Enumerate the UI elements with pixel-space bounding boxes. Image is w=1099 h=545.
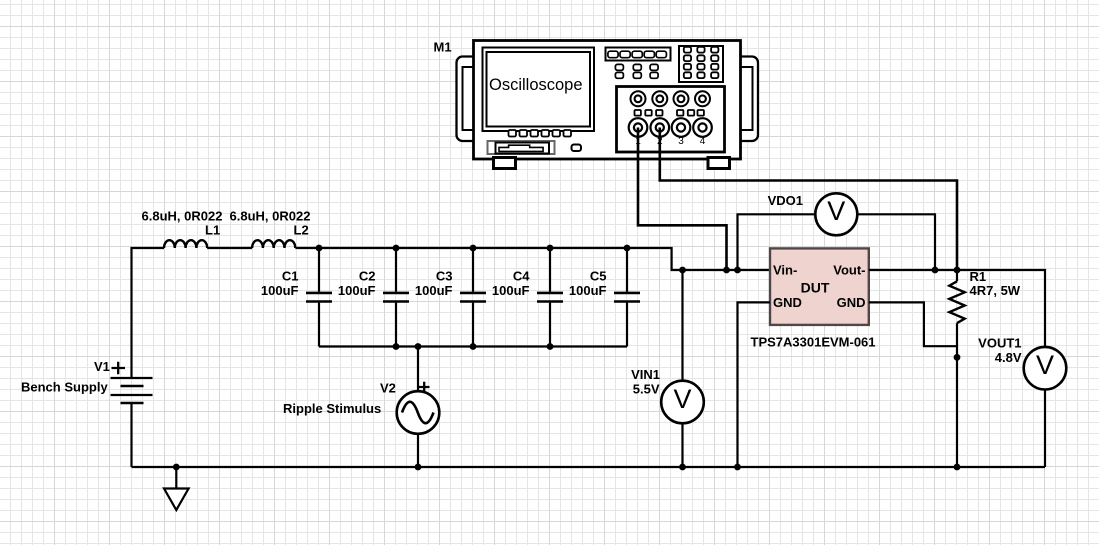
junction node VIN1 tap <box>679 267 686 274</box>
voltmeter VOUT1 <box>978 336 1066 468</box>
junction node ground <box>173 464 180 471</box>
svg-text:C5: C5 <box>590 269 607 284</box>
junction node C2 bottom <box>393 343 400 350</box>
bottom BNC connectors <box>629 118 712 137</box>
wire capacitor bottom rail <box>319 345 627 347</box>
svg-text:100uF: 100uF <box>338 283 376 298</box>
voltmeter VIN1 <box>631 270 704 467</box>
svg-text:100uF: 100uF <box>492 283 530 298</box>
svg-text:GND: GND <box>773 295 802 310</box>
svg-text:4: 4 <box>700 136 706 147</box>
junction node C4 bottom <box>547 343 554 350</box>
left foot <box>494 158 516 169</box>
junction node C1 top <box>316 245 323 252</box>
svg-text:V1: V1 <box>94 359 110 374</box>
inductor L1 <box>164 240 207 248</box>
junction node C2 top <box>393 245 400 252</box>
junction node VDO1 left tap <box>734 267 741 274</box>
svg-text:C3: C3 <box>436 269 453 284</box>
battery V1 <box>21 359 153 403</box>
svg-text:V: V <box>673 384 691 414</box>
junction node V2 top <box>415 343 422 350</box>
screen buttons row <box>509 130 572 137</box>
top BNC connectors <box>631 91 711 106</box>
capacitor C3 <box>415 248 486 347</box>
svg-text:C2: C2 <box>359 269 376 284</box>
capacitor C5 <box>569 248 640 347</box>
svg-text:DUT: DUT <box>801 280 830 296</box>
svg-text:VIN1: VIN1 <box>631 367 660 382</box>
svg-text:Vin-: Vin- <box>773 263 797 278</box>
svg-text:3: 3 <box>678 136 684 147</box>
junction node VDO1 right tap <box>932 267 939 274</box>
svg-text:Vout-: Vout- <box>833 263 865 278</box>
svg-text:6.8uH, 0R022: 6.8uH, 0R022 <box>142 209 223 224</box>
svg-text:L2: L2 <box>294 223 309 238</box>
oscilloscope M1 <box>434 40 759 169</box>
resistor R1 <box>949 269 1021 467</box>
right handle <box>733 57 759 142</box>
svg-text:C4: C4 <box>513 269 530 284</box>
wire Vout- rail to VOUT1 <box>869 270 1045 347</box>
svg-text:V2: V2 <box>380 380 396 395</box>
junction node R1 top <box>954 267 961 274</box>
scope screen <box>483 48 595 132</box>
scope body <box>474 41 741 160</box>
junction node C3 top <box>470 245 477 252</box>
svg-text:VDO1: VDO1 <box>768 193 803 208</box>
junction node R1 bottom <box>954 354 961 361</box>
mini squares row <box>635 110 704 116</box>
DUT block TPS7A3301EVM-061 <box>751 248 876 349</box>
floppy drive <box>488 141 555 154</box>
svg-text:6.8uH, 0R022: 6.8uH, 0R022 <box>230 209 311 224</box>
svg-text:TPS7A3301EVM-061: TPS7A3301EVM-061 <box>751 335 876 350</box>
svg-text:Oscilloscope: Oscilloscope <box>489 76 583 94</box>
junction node probe 1 tap <box>723 267 730 274</box>
wire DUT right GND to R1 bottom <box>869 302 957 346</box>
BNC panel <box>617 87 725 153</box>
junction node VIN1 bottom rail <box>679 464 686 471</box>
svg-text:L1: L1 <box>205 223 220 238</box>
wire probe channel 2 to output node <box>660 128 957 271</box>
svg-text:5.5V: 5.5V <box>633 382 660 397</box>
junction node V2 bottom rail <box>415 464 422 471</box>
svg-text:4.8V: 4.8V <box>995 350 1022 365</box>
left handle <box>457 57 482 142</box>
junction node C3 bottom <box>470 343 477 350</box>
inductor L2 <box>252 240 295 248</box>
wire battery V1 top to L1 <box>132 248 165 378</box>
wire battery bottom to rail <box>130 403 132 467</box>
svg-text:100uF: 100uF <box>261 283 299 298</box>
svg-text:M1: M1 <box>434 40 452 55</box>
svg-text:C1: C1 <box>282 269 299 284</box>
svg-text:V: V <box>1036 350 1054 380</box>
svg-text:GND: GND <box>837 295 866 310</box>
svg-text:Bench Supply: Bench Supply <box>21 380 108 395</box>
svg-text:4R7, 5W: 4R7, 5W <box>970 283 1021 298</box>
svg-text:VOUT1: VOUT1 <box>978 336 1021 351</box>
wire probe channel 1 to input node <box>638 128 727 271</box>
wire L1 to L2 <box>207 247 252 249</box>
right foot <box>708 158 730 169</box>
top button strip <box>606 48 671 61</box>
wire top rail L2 to input corner and Vin- pin <box>295 248 770 270</box>
junction node C4 top <box>547 245 554 252</box>
voltage source V2 Ripple Stimulus <box>283 347 439 468</box>
keypad <box>679 46 723 82</box>
capacitor C2 <box>338 248 409 347</box>
junction node GND left bottom rail <box>734 464 741 471</box>
wire bottom rail <box>132 466 1046 468</box>
ground <box>164 467 189 510</box>
junction node C5 top <box>624 245 631 252</box>
svg-text:R1: R1 <box>970 269 987 284</box>
2x3 button group <box>615 64 658 78</box>
small button right of floppy <box>572 145 582 152</box>
svg-text:V: V <box>827 196 845 226</box>
capacitor C4 <box>492 248 563 347</box>
voltmeter VDO1 <box>738 193 936 270</box>
capacitor C1 <box>261 248 332 347</box>
svg-text:Ripple Stimulus: Ripple Stimulus <box>283 401 381 416</box>
svg-text:100uF: 100uF <box>415 283 453 298</box>
wire DUT left GND to bottom rail <box>738 302 771 467</box>
junction node R1 bottom rail <box>954 464 961 471</box>
svg-text:100uF: 100uF <box>569 283 607 298</box>
